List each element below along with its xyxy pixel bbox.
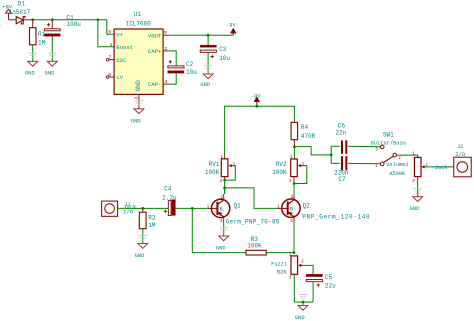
svg-text:Boost: Boost <box>116 44 133 51</box>
svg-text:10u: 10u <box>186 69 197 76</box>
svg-text:U1: U1 <box>134 11 142 18</box>
wire C4 to Q1 <box>176 207 208 209</box>
svg-text:PNP_Germ_120-140: PNP_Germ_120-140 <box>302 214 370 221</box>
node junction R2 <box>141 207 144 210</box>
svg-text:1M: 1M <box>38 39 46 46</box>
svg-text:22u: 22u <box>325 282 336 289</box>
node junction R1 <box>31 18 34 21</box>
wire to Boost <box>98 20 114 47</box>
svg-text:GND: GND <box>200 82 210 88</box>
transistor Q1 <box>207 188 280 236</box>
node junction C1 <box>51 18 54 21</box>
svg-text:<: < <box>0 22 2 29</box>
svg-text:Guitar/Bass: Guitar/Bass <box>371 141 407 147</box>
pin 6 <box>106 72 114 78</box>
ground Volume1 <box>410 189 423 213</box>
svg-text:Q1: Q1 <box>234 203 242 210</box>
connector J2 <box>435 144 472 177</box>
svg-text:R2: R2 <box>148 214 156 221</box>
pin 5 <box>163 30 168 36</box>
potentiometer Volume1 <box>386 153 454 189</box>
svg-text:GND: GND <box>135 253 145 259</box>
svg-text:C4: C4 <box>164 186 172 193</box>
svg-text:D1: D1 <box>18 0 26 7</box>
node junction RV1 wiper <box>223 179 226 182</box>
svg-text:100K: 100K <box>247 243 262 250</box>
capacitor C3 <box>200 35 230 74</box>
wire RV1 to Q2 base <box>225 188 278 209</box>
node junction R4 bottom <box>293 145 296 148</box>
capacitor C7 <box>331 155 380 183</box>
svg-text:GND: GND <box>45 71 55 77</box>
ground R1 <box>25 53 38 77</box>
capacitor C2 <box>168 51 197 84</box>
ground Q1 <box>216 228 229 252</box>
wire SW1 to volume <box>397 155 418 157</box>
svg-text:Germ_PNP_70-85: Germ_PNP_70-85 <box>226 219 280 226</box>
resistor R1 <box>30 20 46 62</box>
power -9V amp <box>251 93 261 106</box>
capacitor C6 <box>331 122 380 155</box>
wire fuzz C5 ground <box>294 301 313 303</box>
wire -9V rail <box>225 106 295 156</box>
svg-text:I/O: I/O <box>123 210 133 216</box>
wire top rail <box>29 19 107 21</box>
ground C3 <box>200 66 213 89</box>
power -9V vout <box>226 23 236 36</box>
svg-text:8: 8 <box>108 29 111 35</box>
node junction RV2 wiper <box>293 182 296 185</box>
wire J1 to C4 <box>118 207 168 209</box>
svg-text:C3: C3 <box>219 46 227 53</box>
node junction Q2 emitter R3 <box>293 251 296 254</box>
pin 4 <box>163 79 168 85</box>
wire RV1 to Q1 collector <box>224 188 226 194</box>
capacitor C5 <box>306 274 336 302</box>
svg-text:1M: 1M <box>148 222 156 229</box>
ground Fuzz1 C5 <box>295 295 308 321</box>
svg-text:100u: 100u <box>67 21 82 28</box>
svg-text:-9V: -9V <box>226 23 236 29</box>
svg-text:RV2: RV2 <box>276 161 287 168</box>
capacitor C4 <box>162 186 177 216</box>
node junction -9V rail <box>255 105 258 108</box>
svg-text:Volume1: Volume1 <box>386 162 409 168</box>
resistor R2 <box>139 208 156 243</box>
trimmer RV1 <box>205 156 236 188</box>
ground U1 <box>131 101 144 125</box>
wire R4 to RV2 <box>293 147 295 159</box>
switch SW1 <box>371 132 407 169</box>
svg-text:V+: V+ <box>116 31 123 38</box>
svg-text:C7: C7 <box>338 176 346 183</box>
pin 2 <box>163 46 168 52</box>
svg-text:C5: C5 <box>325 274 333 281</box>
svg-text:Jack: Jack <box>435 165 448 171</box>
svg-text:ICL7660: ICL7660 <box>126 21 152 28</box>
svg-text:Fuzz1: Fuzz1 <box>271 261 287 267</box>
node junction ground <box>302 301 305 304</box>
svg-text:100K: 100K <box>272 169 287 176</box>
wire Q1 base to R3 <box>192 208 246 252</box>
svg-text:LV: LV <box>116 74 123 81</box>
svg-text:J2: J2 <box>457 144 463 150</box>
svg-text:CAP-: CAP- <box>148 81 161 88</box>
svg-text:100K: 100K <box>205 169 220 176</box>
svg-text:GND: GND <box>135 80 142 92</box>
svg-text:GND: GND <box>410 206 420 212</box>
svg-text:1n5817: 1n5817 <box>9 9 31 16</box>
svg-text:CAP+: CAP+ <box>148 48 162 55</box>
capacitor C1 <box>44 14 81 61</box>
resistor R3 <box>246 236 294 255</box>
svg-text:VOUT: VOUT <box>148 32 162 39</box>
node junction RV1 bottom <box>223 187 226 190</box>
svg-text:1: 1 <box>110 42 113 48</box>
svg-text:C6: C6 <box>338 122 346 129</box>
svg-text:SW1: SW1 <box>383 132 394 139</box>
pin 3 <box>134 94 140 108</box>
svg-text:10u: 10u <box>219 55 230 62</box>
svg-text:RV1: RV1 <box>209 161 220 168</box>
svg-text:R4: R4 <box>301 124 309 131</box>
grid dots <box>39 37 448 312</box>
svg-text:GND: GND <box>216 245 226 251</box>
svg-text:Q2: Q2 <box>303 203 311 210</box>
transistor Q2 <box>277 194 370 253</box>
wire to V+ <box>107 20 114 34</box>
svg-text:22n: 22n <box>335 130 346 137</box>
wire R4 to caps <box>294 147 331 155</box>
svg-text:B: B <box>220 207 223 213</box>
trimmer RV2 <box>272 156 307 194</box>
svg-text:B2K: B2K <box>277 269 287 275</box>
svg-text:C2: C2 <box>186 61 194 68</box>
capacitors C6 C7 junction <box>330 154 333 157</box>
diode D1 <box>9 0 31 24</box>
svg-text:GND: GND <box>295 315 305 321</box>
ground R2 <box>135 235 148 259</box>
svg-text:GND: GND <box>131 118 141 124</box>
svg-text:A500K: A500K <box>389 171 406 177</box>
node junction boost <box>97 18 100 21</box>
resistor R4 <box>291 122 316 146</box>
node junction C3 <box>207 34 210 37</box>
IC U1 ICL7660 <box>106 11 168 109</box>
power +9V <box>2 4 12 19</box>
potentiometer Fuzz1 <box>271 253 313 302</box>
wire VOUT <box>168 34 233 36</box>
svg-text:GND: GND <box>25 71 35 77</box>
svg-text:470R: 470R <box>301 133 316 140</box>
connector J1 <box>102 201 137 216</box>
ground C1 <box>45 53 58 77</box>
svg-text:DSC: DSC <box>116 57 127 64</box>
pin 7 <box>106 55 114 61</box>
svg-text:B: B <box>290 206 293 212</box>
node junction Q1 base <box>191 207 194 210</box>
